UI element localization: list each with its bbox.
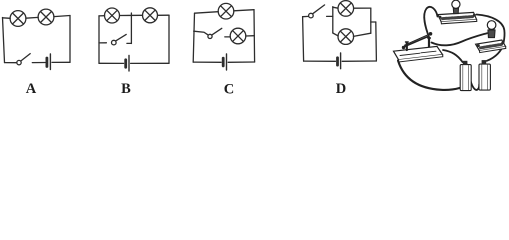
wire D right vertical [375,22,378,61]
label D [336,81,346,97]
wire D bottom branch right [353,33,370,36]
wire A left vertical [3,18,5,63]
lamp L1 (circuit D) [338,1,354,17]
bulb holder X1 base plate [438,12,477,23]
wire switch to bulb holder X1 [424,7,437,39]
wire D top branch left [333,7,338,8]
label B [121,81,131,97]
wire D top branch right [354,7,371,9]
wire battery GB1 to switch post [443,50,463,62]
switch knife lever (pictorial) [402,32,433,49]
wire C bottom left [193,61,221,63]
wire B riser node between lamps [130,13,132,44]
wire D switch contact dash [327,15,333,17]
wire A between lamps [26,16,38,19]
wire A right vertical [69,16,71,63]
wire C top right [234,10,254,11]
svg-text:B: B [121,81,131,97]
lamp L1 (circuit C) [218,3,234,19]
wire A top stub left [3,17,11,20]
lamp L2 (circuit D) [338,29,354,45]
switch S (circuit A) lever [21,54,30,61]
wire B bottom right [131,62,169,64]
wire D jog from bar [371,21,376,23]
lamp L2 (circuit A) [38,9,54,25]
bulb X1 socket [453,7,458,14]
wire C branch right [246,35,255,37]
battery GB1 cell [460,61,471,91]
wire D bottom branch left [333,33,338,36]
label A [26,81,37,97]
switch S (circuit C) lever [212,28,222,35]
wire A bottom right [52,61,70,63]
wire C bottom right [228,61,255,63]
lamp L2 (circuit C) [230,28,246,44]
switch S (circuit B) pivot [112,40,117,45]
wire C branch stub [194,31,208,35]
battery (circuit C) [223,54,226,70]
switch S (circuit D) pivot [309,13,314,18]
switch posts (pictorial) [406,38,431,50]
battery (circuit A) [47,54,51,70]
wire big bottom swoop switch to battery GB1 [398,61,460,90]
wire C top left [195,12,219,14]
wire C right vertical [253,10,256,62]
wire C switch contact dash [225,36,231,38]
svg-text:A: A [26,81,37,97]
wire D stub to switch [303,15,309,17]
switch base plate (pictorial) [394,46,443,62]
svg-text:D: D [336,81,346,97]
wire B between lamps [120,14,143,16]
wire B switch contact dash [127,42,131,44]
wire B switch stub from left [99,42,106,44]
svg-text:C: C [224,82,234,98]
wire D bottom left [304,60,336,62]
bulb X2 socket [488,29,495,38]
wire D bottom right [342,60,376,62]
wire B top stub left [99,15,105,17]
switch S (circuit C) pivot [208,34,212,38]
wire B top right [158,14,170,16]
wire A battery to switch [32,62,45,64]
bulb X1 glass [452,0,460,8]
bulb holder X2 base plate [476,40,506,53]
wire D left junction bar [332,7,334,33]
wire A switch stub to corner [5,62,17,64]
switch S (circuit D) lever [313,5,325,14]
wire B bottom left [99,62,124,64]
wire A top right [54,16,70,17]
lamp L2 (circuit B) [143,8,158,23]
wire B left vertical [98,16,100,63]
wire between batteries [467,64,480,90]
wire D right junction bar [370,8,372,33]
wire switch to bulb X2 mid arc [432,33,488,45]
battery (circuit D) [338,53,341,69]
lamp L1 (circuit B) [105,8,120,23]
switch S (circuit A) pivot [17,60,21,64]
switch S (circuit B) lever [116,34,127,41]
wire bulb X2 holder to battery GB2 [487,44,504,61]
bulb X2 glass [487,21,496,30]
wire bulb X1 to bulb X2 holder [477,15,505,43]
wire D left vertical [303,17,304,61]
lamp L1 (circuit A) [10,11,26,27]
wire B right vertical [168,15,170,63]
battery (circuit B) [126,56,129,72]
battery GB2 cell [479,60,490,90]
label C [224,82,234,98]
wire C left vertical [193,13,194,62]
